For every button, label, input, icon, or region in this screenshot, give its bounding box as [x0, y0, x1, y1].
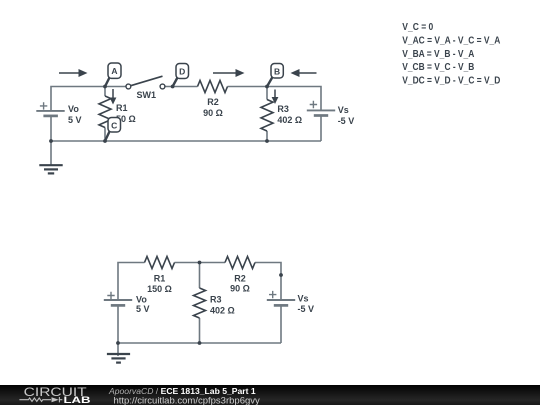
svg-text:V_C = 0: V_C = 0	[402, 22, 433, 33]
svg-text:90 Ω: 90 Ω	[203, 108, 223, 118]
battery V3 (Vo 5V)	[104, 292, 132, 306]
label R1 150 ohm	[147, 274, 172, 294]
label R3 402 ohm	[210, 295, 235, 316]
current arrow above R2	[213, 69, 245, 77]
svg-text:5 V: 5 V	[68, 115, 82, 125]
footer url line	[114, 395, 261, 405]
wire switch right terminal to R2	[165, 86, 198, 88]
svg-text:402 Ω: 402 Ω	[210, 306, 235, 316]
svg-text:R1: R1	[116, 103, 128, 113]
wire ground lead	[50, 141, 52, 165]
logo CIRCUIT text	[24, 385, 88, 399]
resistor R1 (50 ohm, vertical)	[104, 87, 106, 142]
junction dot at node D	[171, 85, 175, 89]
wire Vs bottom to bottom rail	[320, 116, 322, 141]
label R2 90 ohm	[203, 97, 223, 118]
wire ground lead bottom	[117, 343, 119, 356]
svg-text:-5 V: -5 V	[298, 304, 315, 314]
junction dot ground rail	[49, 139, 53, 143]
svg-text:V_CB = V_C - V_B: V_CB = V_C - V_B	[402, 62, 474, 73]
junction dot at node A	[103, 85, 107, 89]
svg-text:Vs: Vs	[298, 294, 309, 304]
resistor R3 (402 ohm, vertical)	[266, 87, 268, 142]
label Vo 5V	[68, 104, 82, 125]
wire bottom rail	[118, 342, 281, 344]
svg-text:90 Ω: 90 Ω	[230, 284, 250, 294]
junction dot right wire	[279, 273, 283, 277]
resistor R2 (90 ohm, horizontal)	[198, 81, 228, 93]
svg-text:R1: R1	[154, 274, 166, 284]
node C flag	[105, 118, 121, 142]
junction dot R3 bottom	[198, 341, 202, 345]
svg-text:Vo: Vo	[68, 104, 79, 114]
resistor R1 (150 ohm, horizontal)	[145, 257, 175, 269]
footer title line	[108, 386, 256, 396]
svg-text:R3: R3	[210, 295, 222, 305]
svg-text:5 V: 5 V	[136, 304, 150, 314]
resistor R3 (402 ohm, vertical)	[199, 263, 201, 344]
svg-text:C: C	[111, 120, 117, 130]
battery V2 (Vs -5V)	[307, 101, 335, 116]
svg-text:SW1: SW1	[137, 90, 157, 100]
battery V1 (Vo 5V)	[36, 102, 64, 116]
svg-text:150 Ω: 150 Ω	[147, 284, 172, 294]
wire Vo bottom to bottom rail	[50, 116, 52, 141]
label Vs -5V	[298, 294, 315, 315]
svg-text:B: B	[274, 66, 280, 76]
node D flag	[173, 64, 189, 87]
logo diode triangle	[52, 397, 59, 402]
label SW1	[137, 90, 157, 100]
svg-text:402 Ω: 402 Ω	[277, 115, 302, 125]
junction dot mid top rail	[198, 261, 202, 265]
node B flag	[267, 64, 283, 87]
svg-text:A: A	[111, 66, 117, 76]
node A flag	[105, 63, 121, 87]
junction dot ground	[116, 341, 120, 345]
current arrow left near node B	[291, 69, 317, 77]
wire R2 to Vs top	[255, 263, 281, 301]
wire Vo bottom to bottom rail	[117, 306, 119, 344]
resistor R2 (90 ohm, horizontal)	[225, 257, 255, 269]
wire top rail left (Vo top to node A)	[51, 87, 105, 112]
svg-text:R2: R2	[207, 97, 219, 107]
junction dot at node B	[265, 85, 269, 89]
junction dot R3 bottom	[265, 139, 269, 143]
wire node A to switch left terminal	[105, 86, 126, 88]
label Vo 5V	[136, 295, 150, 315]
ground	[39, 165, 62, 173]
logo LAB text	[64, 395, 91, 405]
svg-text:LAB: LAB	[64, 395, 91, 405]
battery V4 (Vs -5V)	[267, 291, 295, 306]
ground bottom	[107, 354, 130, 363]
svg-text:-5 V: -5 V	[338, 116, 355, 126]
label Vs -5V	[338, 105, 355, 126]
svg-text:R3: R3	[277, 104, 289, 114]
label R1 50 ohm	[116, 103, 136, 124]
logo wire glyph with resistor and diode	[19, 397, 62, 402]
wire node B to Vs top	[267, 87, 321, 111]
current arrow top-left	[59, 69, 88, 77]
label R2 90 ohm	[230, 274, 250, 294]
svg-text:R2: R2	[234, 274, 246, 284]
current arrow R1 down	[110, 89, 117, 105]
svg-text:V_BA = V_B - V_A: V_BA = V_B - V_A	[402, 49, 474, 60]
wire bottom rail	[51, 140, 321, 142]
wire Vs bottom to bottom rail	[280, 306, 282, 344]
current arrow R3 down	[272, 90, 279, 105]
label R3 402 ohm	[277, 104, 302, 125]
node voltage equations	[402, 22, 500, 87]
svg-text:V_DC = V_D - V_C = V_D: V_DC = V_D - V_C = V_D	[402, 76, 500, 87]
svg-text:http://circuitlab.com/cpfps3rb: http://circuitlab.com/cpfps3rbp6gvy	[114, 395, 261, 405]
svg-text:D: D	[179, 67, 185, 77]
switch SW1	[126, 76, 165, 89]
svg-text:V_AC = V_A - V_C = V_A: V_AC = V_A - V_C = V_A	[402, 35, 500, 46]
wire R2 to node B	[228, 86, 268, 88]
junction dot at node C	[103, 139, 107, 143]
wire between R1 and R2	[175, 262, 226, 264]
wire top rail left	[118, 263, 145, 301]
svg-text:Vs: Vs	[338, 105, 349, 115]
svg-text:Vo: Vo	[136, 295, 147, 305]
